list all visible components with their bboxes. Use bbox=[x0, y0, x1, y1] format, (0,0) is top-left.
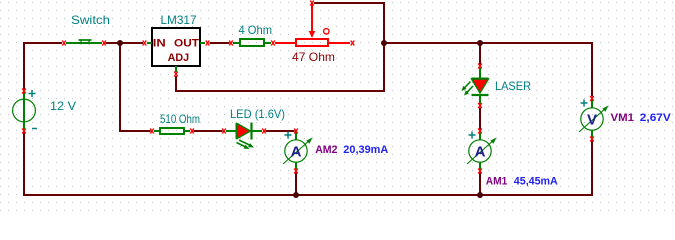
VM1 plus mark bbox=[581, 100, 588, 107]
junction A dot bbox=[117, 40, 123, 46]
svg-text:LM317: LM317 bbox=[161, 13, 197, 27]
battery minus mark bbox=[32, 128, 37, 130]
D2 light arrow 2 bbox=[464, 86, 473, 96]
svg-text:4 Ohm: 4 Ohm bbox=[239, 23, 273, 37]
label 4 Ohm bbox=[239, 23, 273, 37]
AM1 plus mark bbox=[469, 132, 476, 139]
svg-text:IN: IN bbox=[153, 38, 166, 50]
svg-text:LASER: LASER bbox=[495, 79, 531, 93]
ammeter AM2 bbox=[283, 132, 313, 170]
VM1 pin x bottom bbox=[590, 137, 594, 142]
label LED (1.6V) bbox=[230, 107, 285, 121]
R1 pin x left bbox=[229, 41, 233, 46]
LM317 pin x IN bbox=[143, 41, 147, 46]
svg-text:12 V: 12 V bbox=[50, 99, 76, 113]
wire: node B to right corner and down to voltmeter VM1 bbox=[384, 43, 592, 97]
P1 wiper pin x top bbox=[310, 1, 314, 6]
VM1 pin x top bbox=[590, 96, 594, 101]
wire: junction A down and right to resistor R2 bbox=[120, 44, 151, 131]
laser diode D2 bbox=[472, 68, 489, 105]
P1 hotkey circle o bbox=[324, 29, 329, 34]
svg-text:OUT: OUT bbox=[174, 38, 199, 50]
label 47 Ohm bbox=[292, 50, 335, 64]
battery pin x top bbox=[22, 89, 26, 94]
switch SW1 bbox=[66, 40, 102, 45]
wire: node C down to laser D2 bbox=[479, 44, 481, 65]
svg-text:2,67V: 2,67V bbox=[640, 112, 672, 124]
junction dot AM1 bottom bbox=[477, 192, 483, 198]
R2 pin x left bbox=[150, 129, 154, 134]
battery pin x bottom bbox=[22, 129, 26, 134]
LED D1 bbox=[226, 123, 262, 140]
D1 pin x right bbox=[262, 129, 266, 134]
label AM2 bbox=[315, 144, 337, 156]
pin label IN bbox=[153, 38, 166, 50]
junction dot AM2 bottom bbox=[293, 192, 299, 198]
svg-text:510 Ohm: 510 Ohm bbox=[160, 112, 200, 126]
wire: top loop from wiper P1 to node B down to ADJ return bbox=[176, 3, 384, 91]
wire: ammeter AM2 to bottom rail bbox=[295, 173, 297, 196]
wire: VM1 bottom, bottom rail, battery bottom bbox=[24, 133, 592, 196]
wire: resistor R2 to LED D1 bbox=[194, 130, 223, 132]
AM2 pin x bottom bbox=[294, 169, 298, 174]
pin label OUT bbox=[174, 38, 199, 50]
svg-text:ADJ: ADJ bbox=[168, 52, 190, 64]
wire: ammeter AM1 to bottom rail bbox=[479, 173, 481, 196]
svg-text:A: A bbox=[475, 144, 486, 161]
label AM1 bbox=[486, 176, 508, 188]
D2 pin x bottom bbox=[478, 103, 482, 108]
AM2 plus mark bbox=[285, 132, 292, 139]
R1 pin x right bbox=[271, 41, 275, 46]
wire: LM317 OUT pin to resistor R1 bbox=[210, 42, 230, 44]
label Switch bbox=[71, 13, 110, 27]
label VM1 bbox=[611, 112, 635, 124]
D2 light arrow 1 bbox=[462, 82, 471, 92]
wire: LED D1 to ammeter AM2 bbox=[266, 130, 295, 132]
wire: laser D2 to ammeter AM1 bbox=[479, 108, 481, 130]
label LM317 bbox=[161, 13, 197, 27]
svg-text:45,45mA: 45,45mA bbox=[514, 176, 558, 188]
label 510 Ohm bbox=[160, 112, 200, 126]
label LASER bbox=[495, 79, 531, 93]
svg-text:47 Ohm: 47 Ohm bbox=[292, 50, 335, 64]
resistor R1 4 Ohm bbox=[233, 39, 271, 46]
value 45,45mA bbox=[514, 176, 558, 188]
ammeter AM1 bbox=[467, 132, 497, 170]
svg-text:Switch: Switch bbox=[71, 13, 110, 27]
svg-text:AM2: AM2 bbox=[315, 144, 337, 156]
P1 pin x right open bbox=[351, 41, 355, 46]
battery plus mark bbox=[29, 90, 36, 97]
node C dot bbox=[477, 40, 483, 46]
resistor R2 510 Ohm bbox=[154, 128, 190, 134]
label 12 V bbox=[50, 99, 76, 113]
battery V1 12V bbox=[13, 92, 36, 131]
svg-text:VM1: VM1 bbox=[611, 112, 635, 124]
AM1 pin x top bbox=[478, 129, 482, 134]
AM1 pin x bottom bbox=[478, 169, 482, 174]
rheostat P1 47 Ohm bbox=[275, 5, 350, 47]
switch pin x left bbox=[62, 41, 66, 46]
svg-text:LED (1.6V): LED (1.6V) bbox=[230, 107, 285, 121]
switch pin x right bbox=[102, 41, 106, 46]
D1 light arrow 1 bbox=[239, 140, 254, 148]
pin label ADJ bbox=[168, 52, 190, 64]
svg-text:V: V bbox=[587, 112, 597, 129]
svg-text:20,39mA: 20,39mA bbox=[343, 144, 388, 156]
D1 pin x left bbox=[222, 129, 226, 134]
R2 pin x right bbox=[190, 129, 194, 134]
AM2 pin x top bbox=[294, 129, 298, 134]
svg-text:A: A bbox=[291, 144, 302, 161]
D1 light arrow 2 bbox=[237, 143, 250, 150]
wire: junction A to LM317 IN pin bbox=[119, 42, 143, 44]
node B dot bbox=[381, 40, 387, 46]
wire: left rail corner to battery top bbox=[24, 43, 62, 90]
svg-text:AM1: AM1 bbox=[486, 176, 508, 188]
value 2,67V bbox=[640, 112, 672, 124]
D2 pin x top bbox=[478, 64, 482, 69]
wire: switch right to junction A bbox=[106, 42, 122, 44]
value 20,39mA bbox=[343, 144, 388, 156]
LM317 pin x ADJ bbox=[174, 72, 178, 77]
regulator U1 LM317 box bbox=[147, 28, 205, 72]
voltmeter VM1 bbox=[579, 99, 609, 138]
LM317 pin x OUT bbox=[206, 41, 210, 46]
